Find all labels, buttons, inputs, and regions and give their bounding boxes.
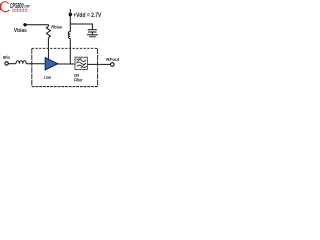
wire inductor to amp (26, 63, 45, 65)
node Vbias dot (23, 23, 26, 26)
svg-text:.com: .com (24, 3, 30, 8)
svg-text:+Vdd = 2.7V: +Vdd = 2.7V (73, 13, 101, 19)
terminal RFout (111, 63, 115, 67)
svg-text:CPS800: CPS800 (10, 1, 24, 10)
capacitor C1 plates (88, 29, 97, 30)
GPS filter box (75, 57, 87, 69)
wire cap to ground (91, 33, 93, 35)
svg-text:LNA: LNA (44, 75, 51, 80)
svg-text:RFin: RFin (3, 55, 10, 60)
wire Vdd branch to cap (70, 24, 92, 29)
dashed IC box (32, 47, 98, 49)
svg-text:Filter: Filter (74, 77, 83, 82)
logo swoosh (red arc) (0, 0, 12, 13)
filter slashes (77, 58, 81, 62)
svg-text:RFout: RFout (106, 57, 119, 62)
svg-text:Vbias: Vbias (14, 28, 27, 34)
wire amp to filter (58, 63, 75, 65)
wire Vbias to resistor (25, 25, 48, 27)
wire RFin to inductor (8, 63, 16, 65)
wire Rbias into box to amp (47, 38, 49, 61)
node +Vdd dot (69, 13, 73, 17)
wire Vdd vertical upper (69, 9, 71, 32)
inductor L2 input match (16, 61, 26, 64)
logo red chinese chars (12, 9, 27, 12)
filter waves (76, 59, 86, 61)
op-amp LNA triangle (45, 58, 58, 70)
wire choke to amp output (69, 39, 71, 65)
resistor Rbias (46, 26, 50, 37)
svg-text:Rbias: Rbias (51, 25, 62, 31)
inductor L1 choke (68, 32, 70, 39)
ground (87, 34, 98, 35)
terminal RFin (5, 62, 8, 65)
wire filter to RFout (87, 63, 110, 65)
